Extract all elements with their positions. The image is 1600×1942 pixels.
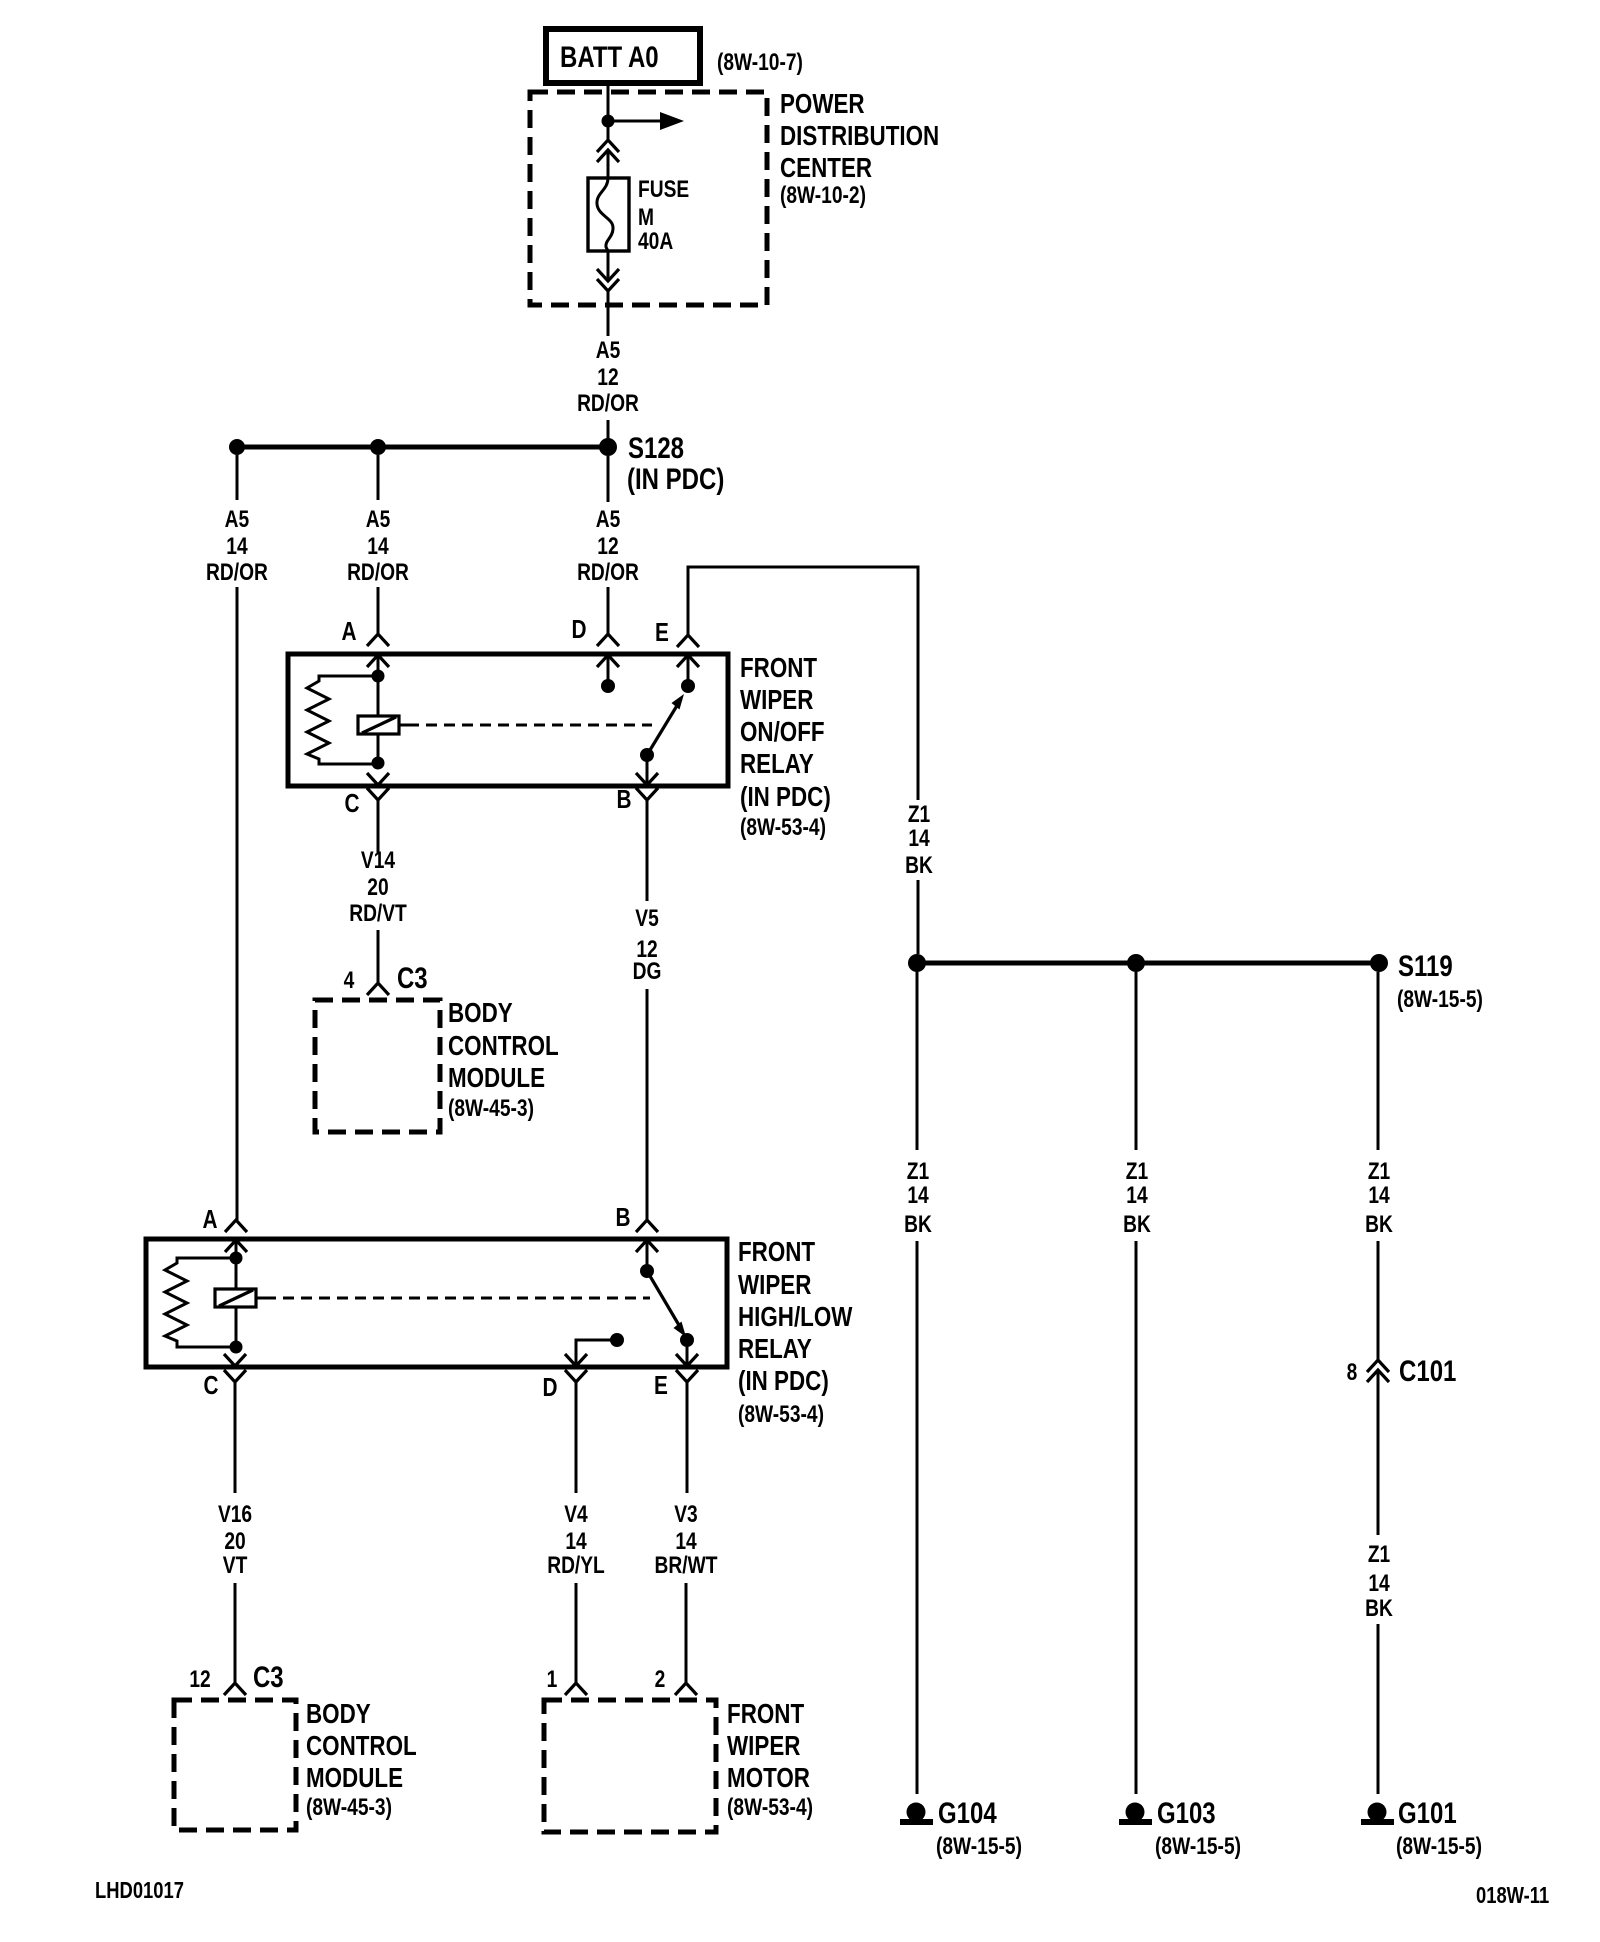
- wire A5 12 RD/OR to relay K1 pin D: [607, 456, 610, 502]
- motor connector pin 1: [565, 1683, 587, 1695]
- svg-text:(8W-53-4): (8W-53-4): [740, 813, 826, 841]
- svg-text:(8W-53-4): (8W-53-4): [738, 1400, 824, 1428]
- svg-text:S128: S128: [628, 430, 684, 464]
- svg-text:RD/OR: RD/OR: [577, 389, 639, 417]
- relay K2 pin D: [565, 1354, 587, 1366]
- svg-text:CONTROL: CONTROL: [448, 1031, 559, 1062]
- ground G101: [1361, 1803, 1394, 1826]
- connector C3 pin 4: [367, 983, 389, 995]
- relay K1 coil: [358, 716, 399, 734]
- svg-text:V16: V16: [218, 1500, 252, 1528]
- svg-text:BODY: BODY: [306, 1699, 371, 1730]
- svg-text:BK: BK: [1365, 1210, 1393, 1238]
- relay K2 pin E: [676, 1354, 698, 1366]
- svg-text:12: 12: [597, 363, 618, 391]
- svg-text:HIGH/LOW: HIGH/LOW: [738, 1302, 852, 1333]
- wire Z1 14 BK to ground G104: [916, 972, 919, 1150]
- relay K2 contact D stub: [576, 1340, 612, 1366]
- svg-text:(8W-53-4): (8W-53-4): [727, 1793, 813, 1821]
- relay K2 resistor: [165, 1258, 236, 1347]
- svg-text:C: C: [204, 1371, 219, 1400]
- splice S128 dot: [599, 438, 617, 456]
- relay K1 pin A: [367, 634, 389, 646]
- svg-text:A5: A5: [366, 505, 391, 533]
- svg-text:G103: G103: [1157, 1795, 1216, 1829]
- svg-text:018W-11: 018W-11: [1476, 1883, 1549, 1908]
- relay K1 coil branch wire: [377, 676, 380, 763]
- wire Z1 14 BK to ground G103: [1135, 972, 1138, 1150]
- svg-text:8: 8: [1347, 1358, 1358, 1386]
- svg-text:V3: V3: [674, 1500, 697, 1528]
- splice S128 bus: [237, 445, 608, 450]
- svg-text:(8W-15-5): (8W-15-5): [1155, 1832, 1241, 1860]
- connector C101 pin 8: [1367, 1360, 1389, 1372]
- svg-text:A5: A5: [596, 505, 621, 533]
- front wiper motor dashed box: [544, 1700, 716, 1832]
- svg-text:E: E: [654, 1371, 668, 1400]
- wire A5 14 RD/OR left branch: [236, 455, 239, 500]
- svg-text:1: 1: [547, 1665, 558, 1693]
- svg-text:BK: BK: [1365, 1594, 1393, 1622]
- wire A5 12 RD/OR PDC to S128: [607, 291, 610, 336]
- arrow to other PDC circuits: [608, 120, 661, 123]
- svg-text:LHD01017: LHD01017: [95, 1878, 184, 1903]
- connector chevrons PDC input: [597, 140, 619, 152]
- svg-text:(8W-45-3): (8W-45-3): [306, 1793, 392, 1821]
- svg-text:RELAY: RELAY: [740, 749, 814, 780]
- svg-text:(8W-10-2): (8W-10-2): [780, 181, 866, 209]
- svg-text:14: 14: [367, 532, 388, 560]
- connector C3 pin 12: [224, 1683, 246, 1695]
- svg-text:ON/OFF: ON/OFF: [740, 717, 825, 748]
- svg-text:POWER: POWER: [780, 89, 865, 120]
- relay K2 switch arm B to E: [640, 1264, 654, 1278]
- svg-text:(IN PDC): (IN PDC): [627, 461, 724, 495]
- svg-text:2: 2: [655, 1665, 666, 1693]
- svg-text:RD/OR: RD/OR: [577, 558, 639, 586]
- svg-text:V5: V5: [635, 904, 658, 932]
- svg-text:RD/YL: RD/YL: [547, 1551, 605, 1579]
- junction dot middle branch: [370, 439, 386, 455]
- svg-text:(8W-45-3): (8W-45-3): [448, 1094, 534, 1122]
- svg-text:14: 14: [1126, 1181, 1147, 1209]
- svg-text:A: A: [202, 1205, 217, 1234]
- body control module dashed box: [315, 1000, 440, 1132]
- splice S119 dot: [1370, 954, 1388, 972]
- wire junction to fuse: [607, 152, 610, 180]
- wire fuse to PDC output connector: [607, 251, 610, 281]
- wire Z1 14 BK C101 to ground G101: [1377, 1372, 1380, 1535]
- svg-text:(8W-15-5): (8W-15-5): [1397, 985, 1483, 1013]
- svg-text:CENTER: CENTER: [780, 153, 872, 184]
- ground G104: [900, 1803, 933, 1826]
- power distribution center dashed box: [530, 92, 767, 305]
- svg-text:MODULE: MODULE: [448, 1063, 545, 1094]
- svg-text:VT: VT: [223, 1551, 248, 1579]
- svg-text:BODY: BODY: [448, 998, 513, 1029]
- junction dot S119 left: [908, 954, 926, 972]
- ground G103: [1119, 1803, 1152, 1826]
- junction dot S119 middle: [1127, 954, 1145, 972]
- svg-text:C: C: [344, 789, 359, 818]
- relay K2 pin B: [636, 1220, 658, 1232]
- svg-text:D: D: [572, 615, 587, 644]
- relay K1 pin C: [367, 773, 389, 785]
- svg-text:FRONT: FRONT: [738, 1237, 816, 1268]
- svg-text:RELAY: RELAY: [738, 1334, 812, 1365]
- svg-text:G101: G101: [1398, 1795, 1457, 1829]
- svg-text:RD/OR: RD/OR: [206, 558, 268, 586]
- svg-text:(8W-15-5): (8W-15-5): [1396, 1832, 1482, 1860]
- fuse M 40A: [588, 178, 629, 251]
- relay K2 junction dot bottom: [230, 1341, 243, 1354]
- svg-text:14: 14: [908, 824, 929, 852]
- svg-text:BK: BK: [905, 851, 933, 879]
- splice S119 bus: [917, 961, 1379, 966]
- svg-text:4: 4: [344, 966, 355, 994]
- svg-text:12: 12: [597, 532, 618, 560]
- svg-text:A: A: [341, 617, 356, 646]
- relay K1 junction dot bottom: [372, 757, 385, 770]
- svg-text:DG: DG: [633, 957, 662, 985]
- svg-text:40A: 40A: [638, 227, 673, 255]
- relay K2 pin A: [225, 1220, 247, 1232]
- relay K2 pin C: [224, 1354, 246, 1366]
- wire Z1 14 BK to connector C101: [1377, 972, 1380, 1150]
- relay K1 coil-to-arm dashed link: [399, 724, 419, 727]
- svg-text:(IN PDC): (IN PDC): [738, 1366, 829, 1397]
- svg-text:RD/OR: RD/OR: [347, 558, 409, 586]
- svg-text:WIPER: WIPER: [727, 1731, 800, 1762]
- svg-text:V4: V4: [564, 1500, 587, 1528]
- svg-text:BK: BK: [904, 1210, 932, 1238]
- svg-text:B: B: [616, 785, 631, 814]
- svg-text:BR/WT: BR/WT: [655, 1551, 719, 1579]
- svg-text:MOTOR: MOTOR: [727, 1763, 810, 1794]
- relay K1 pin B: [636, 773, 658, 785]
- relay K1 junction dot top: [372, 670, 385, 683]
- relay K2 coil-to-arm dashed link: [256, 1297, 276, 1300]
- svg-text:A5: A5: [596, 336, 621, 364]
- relay K2 front wiper high/low box: [146, 1239, 727, 1367]
- svg-text:WIPER: WIPER: [740, 685, 813, 716]
- relay K1 resistor: [307, 676, 378, 764]
- svg-text:C3: C3: [253, 1659, 284, 1693]
- svg-text:DISTRIBUTION: DISTRIBUTION: [780, 121, 939, 152]
- connector chevrons PDC output: [597, 269, 619, 281]
- relay K1 switch arm B to E: [640, 748, 654, 762]
- svg-text:14: 14: [1368, 1569, 1389, 1597]
- body control module dashed box 2: [174, 1700, 296, 1830]
- svg-text:WIPER: WIPER: [738, 1270, 811, 1301]
- svg-text:G104: G104: [938, 1795, 997, 1829]
- battery feed box BATT A0: [546, 29, 700, 83]
- svg-text:C3: C3: [397, 960, 428, 994]
- svg-text:FRONT: FRONT: [727, 1699, 805, 1730]
- svg-text:FUSE: FUSE: [638, 175, 689, 203]
- svg-text:(IN PDC): (IN PDC): [740, 782, 831, 813]
- svg-text:RD/VT: RD/VT: [349, 899, 407, 927]
- junction dot in PDC: [602, 115, 615, 128]
- wire A5 14 RD/OR middle branch: [377, 455, 380, 500]
- svg-text:12: 12: [189, 1665, 210, 1693]
- motor connector pin 2: [675, 1683, 697, 1695]
- svg-text:C101: C101: [1399, 1353, 1456, 1387]
- svg-text:BK: BK: [1123, 1210, 1151, 1238]
- svg-text:14: 14: [1368, 1181, 1389, 1209]
- svg-text:CONTROL: CONTROL: [306, 1731, 417, 1762]
- svg-text:20: 20: [367, 873, 388, 901]
- svg-text:14: 14: [907, 1181, 928, 1209]
- junction dot left branch: [229, 439, 245, 455]
- relay K2 coil: [215, 1289, 256, 1307]
- relay K1 pin E: [677, 635, 699, 647]
- svg-text:MODULE: MODULE: [306, 1763, 403, 1794]
- wire Z1 14 BK relay K1 pin E to splice S119: [688, 567, 918, 800]
- svg-text:A5: A5: [225, 505, 250, 533]
- svg-text:B: B: [616, 1203, 631, 1232]
- svg-text:D: D: [542, 1373, 557, 1402]
- svg-text:BATT A0: BATT A0: [560, 39, 659, 73]
- relay K2 coil branch wire: [235, 1258, 238, 1347]
- svg-text:S119: S119: [1398, 948, 1453, 982]
- svg-text:(8W-10-7): (8W-10-7): [717, 48, 803, 76]
- svg-text:FRONT: FRONT: [740, 653, 818, 684]
- svg-text:Z1: Z1: [1368, 1540, 1390, 1568]
- wire BATT A0 feed into PDC: [607, 83, 610, 141]
- svg-text:E: E: [655, 618, 669, 647]
- relay K2 junction dot top: [230, 1252, 243, 1265]
- relay K1 front wiper on/off box: [288, 654, 728, 786]
- svg-text:(8W-15-5): (8W-15-5): [936, 1832, 1022, 1860]
- relay K1 pin D: [597, 634, 619, 646]
- svg-text:V14: V14: [361, 846, 395, 874]
- svg-text:14: 14: [226, 532, 247, 560]
